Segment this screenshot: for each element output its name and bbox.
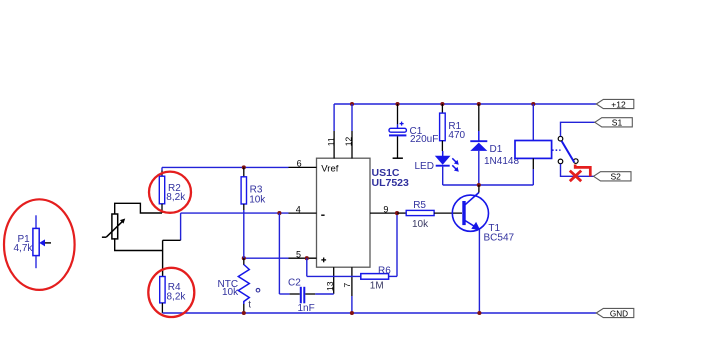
capacitor C1 electrolytic: [389, 104, 406, 158]
flag S1: [595, 118, 633, 128]
wire pin5 to pin13 horizontal: [307, 275, 361, 277]
svg-text:13: 13: [325, 281, 335, 291]
junction GND rail emitter: [477, 311, 481, 315]
wire emitter to ground rail: [478, 230, 480, 314]
svg-text:t: t: [248, 299, 251, 310]
svg-text:+12: +12: [611, 99, 626, 109]
junction top rail D1: [477, 102, 481, 106]
svg-text:GND: GND: [610, 309, 628, 318]
svg-text:1nF: 1nF: [298, 303, 315, 314]
relay coil K1: [515, 104, 552, 185]
flag GND: [596, 308, 634, 318]
svg-text:D1: D1: [490, 144, 503, 155]
junction pin5 net R3 NTC: [242, 256, 246, 260]
wire black node to R4 top: [162, 240, 164, 276]
svg-text:220uF: 220uF: [410, 134, 438, 145]
pin 4 lead: [289, 212, 317, 214]
wire C2 net vertical: [278, 213, 280, 294]
wire GND rail: [162, 312, 596, 314]
wire +12 supply rail: [334, 103, 596, 105]
svg-text:1M: 1M: [370, 281, 384, 292]
annotation red rerouted wire: [575, 165, 590, 177]
junction collector net D1: [477, 183, 481, 187]
junction pin5 to pin13 link: [305, 256, 309, 260]
flag +12: [596, 99, 634, 109]
pin 12 lead: [351, 104, 353, 159]
dotted link relay to switch: [552, 149, 561, 151]
pin 7 lead: [351, 267, 353, 296]
svg-text:BC547: BC547: [484, 233, 515, 244]
wire pin4 net vertical drop to black wire: [180, 213, 182, 240]
junction top rail R1: [440, 102, 444, 106]
NTC degree symbol: [256, 288, 260, 292]
svg-text:10k: 10k: [222, 287, 239, 298]
svg-text:8,2k: 8,2k: [166, 192, 186, 203]
resistor R6: [361, 274, 397, 280]
switch S lower left contact: [558, 159, 563, 164]
annotation red X on S2 wire: [570, 171, 581, 182]
switch S blade: [562, 141, 575, 162]
svg-text:S1: S1: [612, 118, 623, 128]
wire black thermistor bottom: [115, 238, 163, 250]
flag S2: [594, 172, 632, 182]
svg-text:6: 6: [297, 158, 302, 168]
junction top rail pin12: [350, 102, 354, 106]
svg-text:4,7k: 4,7k: [14, 243, 34, 254]
svg-text:10k: 10k: [412, 219, 429, 230]
svg-text:10k: 10k: [249, 194, 266, 205]
resistor R3: [241, 167, 246, 258]
LED: [435, 151, 459, 185]
svg-text:R5: R5: [413, 200, 426, 211]
svg-text:Vref: Vref: [321, 164, 338, 175]
wire pin4 net horizontal: [181, 212, 289, 214]
svg-text:R6: R6: [378, 265, 391, 276]
svg-text:LED: LED: [415, 161, 434, 172]
svg-text:5: 5: [296, 249, 301, 259]
resistor R4: [160, 277, 165, 314]
wire S1 net: [561, 122, 595, 136]
svg-text:8,2k: 8,2k: [167, 292, 187, 303]
resistor R5: [397, 210, 462, 215]
wire pin7 to ground rail: [351, 296, 353, 313]
wire black node to pin4 net: [163, 239, 181, 241]
pin 13 lead: [333, 267, 335, 294]
switch S lower right contact: [574, 159, 579, 164]
annotation red ellipse around R4: [148, 268, 194, 317]
svg-text:1N4148: 1N4148: [484, 156, 519, 167]
pin 11 lead: [333, 104, 335, 159]
svg-text:C2: C2: [288, 278, 301, 289]
potentiometer P1 (suggested, inside red ellipse): [33, 215, 51, 268]
junction GND rail pin7: [350, 311, 354, 315]
annotation red ellipse around R2: [149, 172, 191, 213]
diode D1: [470, 104, 487, 185]
svg-text:9: 9: [383, 204, 388, 214]
capacitor C2: [279, 287, 333, 304]
svg-text:UL7523: UL7523: [372, 177, 410, 189]
junction Vref net R3: [242, 165, 246, 169]
svg-text:12: 12: [344, 136, 354, 146]
wire S2 net: [561, 164, 594, 177]
wire black R2 bottom to thermistor top: [115, 203, 162, 214]
junction top rail C1: [395, 102, 399, 106]
pin 5 lead: [289, 257, 317, 259]
junction pin9 R5 R6: [395, 211, 399, 215]
thermistor NTC 10k: [238, 258, 249, 313]
op-amp U1 body (US1C UL7523): [317, 158, 371, 267]
annotation red ellipse around P1: [4, 199, 75, 290]
transistor T1: [452, 185, 488, 231]
svg-text:4: 4: [296, 204, 301, 214]
svg-text:470: 470: [448, 130, 465, 141]
wire collector net horizontal: [443, 184, 534, 186]
thermistor (black): [102, 214, 125, 239]
switch S common contact: [558, 136, 563, 141]
wire R6 to pin9 net vertical: [396, 213, 398, 276]
svg-text:11: 11: [326, 137, 336, 146]
svg-text:S2: S2: [610, 172, 621, 182]
pin 9 lead: [370, 212, 397, 214]
resistor R2: [159, 167, 164, 213]
junction top rail relay: [531, 102, 535, 106]
resistor R1: [440, 104, 446, 151]
junction GND rail NTC: [242, 311, 246, 315]
wire pin5 net: [244, 257, 289, 259]
wire Vref net: [162, 166, 289, 168]
junction pin4 net to C2: [277, 211, 281, 215]
pin 6 lead: [289, 166, 317, 168]
svg-text:7: 7: [342, 283, 352, 288]
wire pin5 to pin13 vertical: [306, 258, 308, 276]
